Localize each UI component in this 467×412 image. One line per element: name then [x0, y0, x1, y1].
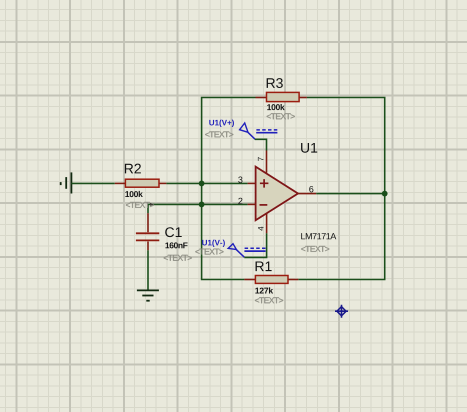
node junction output — [382, 191, 388, 197]
wire output to right rail — [316, 193, 385, 195]
wire feedback loop: top, left rail, bottom — [202, 98, 256, 280]
node junction non-inverting — [199, 181, 205, 187]
pin 4 stub — [266, 214, 268, 234]
pin 7 stub — [266, 151, 268, 173]
wire V- terminal to pin 4 — [244, 233, 266, 257]
pin 6 stub — [298, 193, 316, 195]
wire label marker — [150, 203, 154, 206]
resistor R2 property label — [126, 202, 154, 208]
origin marker — [335, 305, 348, 318]
op-amp U1 — [256, 167, 298, 221]
capacitor C1 — [147, 213, 149, 232]
power terminal U1(V-) — [228, 244, 236, 250]
pin 3 stub — [248, 182, 256, 184]
ground input terminal — [70, 172, 72, 193]
wire input to R2 — [71, 182, 114, 184]
power terminal U1(V+) — [240, 123, 248, 132]
wire right loop: R3 to right rail to R1 — [298, 98, 384, 280]
wire V+ terminal to pin 7 — [255, 139, 267, 150]
pin 2 stub — [248, 203, 256, 205]
ground — [137, 289, 159, 291]
resistor R2 — [115, 182, 126, 184]
wire C1 to ground — [147, 250, 149, 290]
resistor R3 — [256, 97, 267, 99]
wire R2 to non-inverting node — [166, 182, 247, 184]
wire inverting input line and drop to C1 — [148, 204, 248, 213]
node junction inverting — [199, 202, 205, 208]
resistor R1 — [244, 279, 255, 281]
